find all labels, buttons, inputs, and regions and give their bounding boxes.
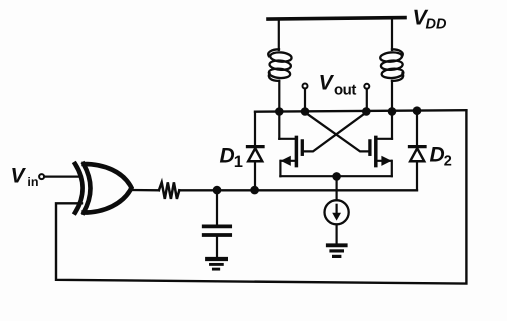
svg-text:V: V <box>319 72 335 95</box>
svg-text:in: in <box>27 175 38 189</box>
svg-text:D: D <box>430 144 445 167</box>
svg-text:1: 1 <box>234 153 243 171</box>
svg-text:out: out <box>334 81 356 98</box>
svg-text:V: V <box>11 164 27 187</box>
svg-text:DD: DD <box>426 17 447 33</box>
svg-text:D: D <box>220 145 235 168</box>
svg-text:2: 2 <box>444 153 452 169</box>
